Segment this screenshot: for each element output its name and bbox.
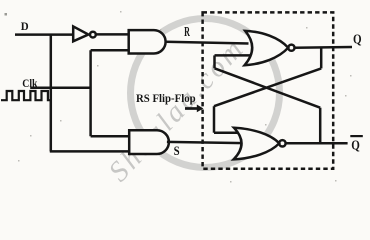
wire Q feedback vertical (320, 47, 323, 68)
wire D branch vertical (50, 34, 53, 152)
svg-text:RS Flip-Flop: RS Flip-Flop (136, 91, 196, 105)
wire Qbar feedback vertical (319, 108, 322, 144)
paper specks (18, 11, 352, 183)
speck (5, 13, 8, 16)
NOR gate G2 (234, 128, 280, 160)
wire Q output (295, 46, 353, 49)
wire Clk horizontal (30, 86, 90, 89)
NOR G1 bubble (288, 45, 294, 51)
svg-text:R: R (184, 24, 190, 39)
wire S (167, 142, 244, 143)
watermark circle (131, 19, 280, 168)
dashed box RS flip-flop (203, 12, 334, 168)
arrow to box (185, 107, 198, 110)
AND gate A2 (129, 130, 169, 154)
inverter U1 triangle (73, 26, 88, 41)
svg-text:Q: Q (351, 139, 360, 154)
NOR gate G1 (245, 31, 289, 65)
Qbar overline (350, 135, 363, 137)
wire D input (15, 33, 73, 36)
svg-text:Clk: Clk (22, 76, 37, 90)
svg-text:Q: Q (353, 33, 362, 48)
wire bottom D to AND2 (50, 150, 129, 153)
NOR G2 bubble (279, 140, 285, 146)
svg-text:D: D (21, 19, 29, 33)
wire NOR1 lower input (215, 54, 251, 57)
AND gate A1 (129, 30, 166, 53)
wire Clk to AND1 lower input (91, 49, 129, 52)
wire inverter out to AND1 (96, 33, 129, 36)
wire Qbar feedback left vertical (213, 55, 216, 68)
clock waveform (1, 91, 51, 100)
svg-text:S: S (174, 143, 180, 158)
wire Clk vertical (89, 50, 92, 136)
wire NOR2 upper input (214, 131, 241, 134)
wire R (166, 42, 249, 44)
wire Qbar feedback diagonal (215, 68, 321, 107)
wire Clk to AND2 upper input (91, 135, 130, 138)
wire Qbar output (286, 142, 348, 145)
wire Q feedback left vertical (213, 106, 216, 133)
wire Q feedback diagonal (214, 68, 321, 106)
inverter U1 bubble (90, 32, 96, 38)
